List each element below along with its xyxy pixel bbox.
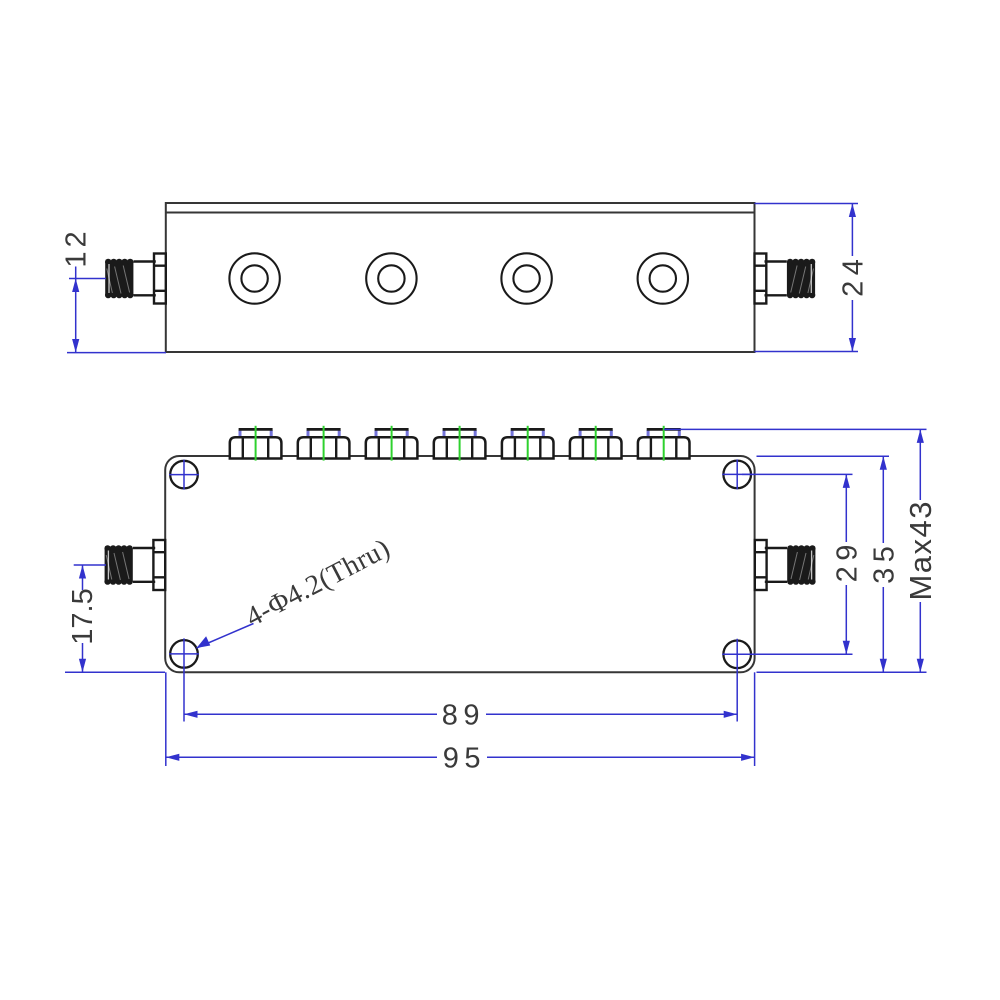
hex nut N6 [570, 429, 622, 459]
hex nut N4 [434, 429, 486, 459]
svg-text:35: 35 [868, 541, 900, 584]
nut N4 green centerline [459, 426, 461, 461]
mounting hole TR (4-dia4.2 thru) [722, 459, 752, 489]
dimension 95 (front view bottom) [166, 672, 755, 774]
SMA connector J1 (front view, left) [104, 540, 165, 590]
top view edge line [166, 212, 755, 214]
leader arrow to hole BL [197, 624, 254, 649]
SMA connector J2 (top view, right) [755, 254, 816, 304]
svg-text:17.5: 17.5 [67, 588, 99, 644]
dimension Max43 (front view right) [664, 429, 938, 672]
svg-text:29: 29 [831, 539, 863, 582]
screw hole H2 (top view) [366, 253, 416, 303]
hex nut N5 [502, 429, 554, 459]
mounting hole BL (4-dia4.2 thru) [169, 638, 199, 721]
dimension 12 (top view left) [61, 227, 166, 352]
nut N7 green centerline [663, 426, 665, 461]
svg-text:24: 24 [838, 254, 870, 297]
hex nut N1 [230, 429, 282, 459]
dimension 35 (front view right) [757, 456, 927, 672]
nut N5 green centerline [527, 426, 529, 461]
nut N3 green centerline [391, 426, 393, 461]
screw hole H1 (top view) [229, 253, 279, 303]
screw hole H4 (top view) [638, 253, 688, 303]
dimension 24 (top view right) [755, 204, 870, 352]
nut N1 green centerline [255, 426, 257, 461]
svg-text:12: 12 [61, 227, 93, 267]
dimension 89 (front view bottom) [184, 699, 737, 731]
screw hole H3 (top view) [501, 253, 551, 303]
mounting hole TL (4-dia4.2 thru) [169, 460, 199, 490]
dimension 29 (front view right) [742, 474, 863, 654]
hex nut N3 [366, 429, 418, 459]
dimension 17.5 (front view left) [65, 565, 165, 672]
front view: device body with mounting holes [165, 456, 754, 672]
svg-text:95: 95 [443, 743, 486, 775]
nut N2 green centerline [323, 426, 325, 461]
nut N6 green centerline [595, 426, 597, 461]
hex nut N7 [638, 429, 690, 459]
top view: device body seen from top [166, 203, 755, 352]
svg-text:Max43: Max43 [903, 500, 938, 601]
SMA connector J2 (front view, right) [755, 540, 816, 590]
svg-text:89: 89 [442, 699, 485, 731]
mounting hole BR (4-dia4.2 thru) [722, 639, 752, 722]
SMA connector J1 (top view, left) [105, 254, 166, 304]
hex nut N2 [298, 429, 350, 459]
